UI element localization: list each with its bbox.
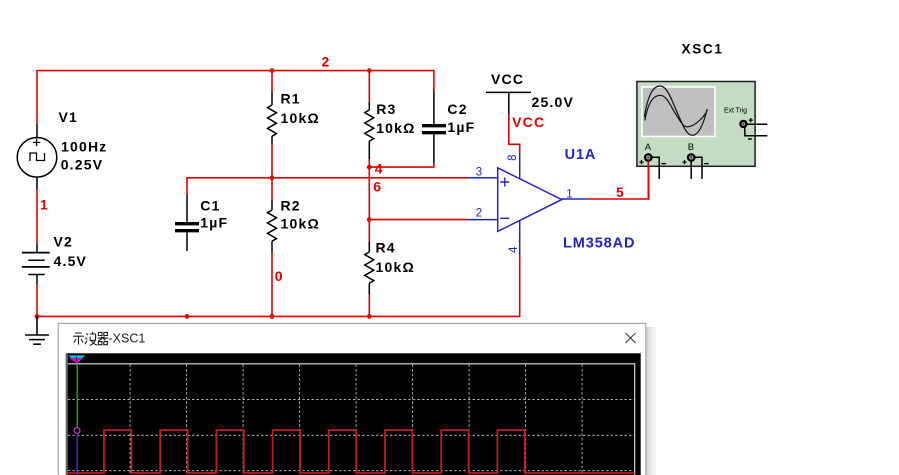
- cursor 1 green line: [76, 364, 78, 428]
- grid vertical dashed lines: [130, 365, 582, 475]
- window close button: [626, 333, 636, 343]
- window frame: [58, 323, 646, 475]
- wire R3 bottom to node4: [368, 159, 370, 167]
- svg-text:3: 3: [476, 167, 482, 179]
- capacitor C2: [422, 91, 446, 163]
- window title text: [73, 332, 108, 346]
- svg-text:XSC1: XSC1: [682, 42, 724, 57]
- svg-text:2: 2: [322, 54, 331, 70]
- junction dot R1/R2 net6: [270, 175, 275, 180]
- resistor R1: [268, 92, 277, 144]
- instrument body: [637, 82, 755, 167]
- svg-text:4: 4: [508, 246, 520, 253]
- junction dot node4: [367, 165, 372, 170]
- wire pin2 horizontal: [369, 219, 468, 221]
- svg-text:10kΩ: 10kΩ: [376, 259, 415, 275]
- svg-text:VCC: VCC: [512, 114, 545, 130]
- svg-text:B: B: [688, 142, 694, 153]
- wire net6 rail: [187, 178, 468, 195]
- wire R4 top lead: [368, 220, 370, 242]
- svg-text:V1: V1: [59, 109, 79, 125]
- svg-text:6: 6: [373, 179, 382, 195]
- svg-text:R4: R4: [376, 240, 396, 256]
- cursor 1 marker triangles: [68, 355, 85, 363]
- wire R4 bottom lead: [368, 294, 370, 316]
- svg-text:0: 0: [275, 268, 284, 284]
- cursor circle marker: [74, 428, 80, 434]
- wire V2 to ground rail: [36, 284, 38, 316]
- wire V1 bottom to V2: [36, 190, 38, 244]
- junction dot R4 bottom: [367, 314, 372, 319]
- svg-text:1: 1: [566, 189, 572, 201]
- resistor R2: [268, 200, 277, 252]
- wire net2 top rail: [37, 71, 434, 124]
- svg-text:V2: V2: [54, 234, 74, 250]
- junction dot C1 bottom: [185, 314, 190, 319]
- glyph 波: [85, 332, 97, 346]
- svg-text:-XSC1: -XSC1: [109, 332, 146, 346]
- svg-text:R2: R2: [281, 197, 301, 213]
- instrument screen: [641, 86, 715, 137]
- svg-text:10kΩ: 10kΩ: [281, 215, 320, 231]
- svg-text:2: 2: [476, 208, 482, 220]
- junction dot pin2 branch: [367, 217, 372, 222]
- svg-text:4.5V: 4.5V: [54, 253, 88, 269]
- wire R2 top lead: [271, 178, 273, 200]
- junction dot ground-left: [35, 314, 40, 319]
- wire net5 output: [587, 162, 649, 199]
- svg-text:10kΩ: 10kΩ: [281, 110, 320, 126]
- wire ground rail net0: [36, 315, 520, 317]
- scope client area: [66, 353, 641, 475]
- wire R1 top lead: [271, 71, 273, 92]
- svg-text:1µF: 1µF: [200, 214, 228, 230]
- svg-text:0.25V: 0.25V: [61, 156, 104, 172]
- resistor R3: [365, 102, 374, 159]
- plot panel left border: [66, 353, 68, 475]
- ground: [25, 316, 49, 344]
- window shadow: [646, 327, 649, 475]
- svg-text:100Hz: 100Hz: [61, 139, 107, 155]
- junction dot R1 top: [270, 68, 275, 73]
- svg-text:C2: C2: [447, 101, 467, 117]
- junction dot R3 top: [367, 68, 372, 73]
- svg-text:R3: R3: [376, 101, 396, 117]
- source V1: [17, 124, 57, 190]
- grid horizontal dashed lines: [68, 399, 635, 470]
- svg-text:R1: R1: [281, 91, 301, 107]
- wire R2 bottom lead: [271, 252, 273, 316]
- svg-text:Ext Trig: Ext Trig: [724, 107, 747, 114]
- junction dot R2 bottom: [270, 314, 275, 319]
- wire terminal A to net5: [647, 162, 649, 198]
- op-amp U1A: [468, 153, 587, 257]
- oscilloscope window 示波器-XSC1: [58, 323, 656, 475]
- wire R1 bottom lead: [271, 144, 273, 178]
- screen sine curves: [645, 86, 708, 135]
- wire R3 top lead: [368, 71, 370, 102]
- wire pin4 to ground rail: [519, 256, 521, 316]
- capacitor C1: [175, 195, 199, 251]
- glyph 器: [98, 332, 109, 344]
- battery V2: [22, 243, 50, 284]
- svg-text:1µF: 1µF: [447, 119, 475, 135]
- graticule frame: [68, 364, 635, 475]
- svg-text:4: 4: [375, 161, 384, 177]
- svg-text:1: 1: [40, 197, 49, 213]
- wire VCC to pin8: [509, 115, 520, 153]
- oscilloscope XSC1 icon: [637, 42, 767, 199]
- ext trig terminal: [740, 121, 746, 127]
- svg-text:LM358AD: LM358AD: [563, 236, 635, 252]
- wire node4 down to pin2 branch: [368, 167, 370, 220]
- ext trig wires: [747, 123, 767, 125]
- wire net4 horizontal to C2: [369, 163, 434, 167]
- resistor R4: [365, 242, 374, 294]
- svg-text:U1A: U1A: [565, 147, 597, 163]
- svg-text:10kΩ: 10kΩ: [376, 120, 415, 136]
- svg-text:5: 5: [616, 184, 625, 200]
- svg-text:8: 8: [507, 154, 519, 160]
- svg-text:VCC: VCC: [491, 71, 524, 87]
- glyph 示: [73, 333, 84, 345]
- svg-text:A: A: [645, 142, 652, 153]
- VCC power symbol: [486, 92, 531, 114]
- channel A square wave trace: [67, 430, 634, 473]
- cursor 2 blue line: [76, 433, 78, 475]
- svg-text:25.0V: 25.0V: [532, 94, 575, 110]
- svg-text:C1: C1: [200, 197, 220, 213]
